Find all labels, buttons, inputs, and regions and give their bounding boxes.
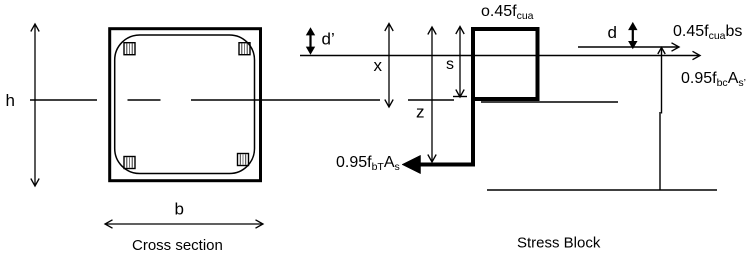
svg-text:s: s (446, 56, 454, 73)
d' bold dimension arrow (306, 27, 315, 55)
svg-text:0.95fbTAs: 0.95fbTAs (336, 154, 400, 173)
compression resultant vertical line with up arrow (658, 48, 665, 191)
inner rounded rect (stirrup link) (115, 35, 255, 174)
x dimension arrow (385, 24, 393, 108)
h dimension arrow (31, 24, 39, 186)
svg-text:Cross section: Cross section (132, 237, 223, 254)
svg-text:d’: d’ (322, 30, 335, 49)
svg-text:0.95fbcAs’: 0.95fbcAs’ (681, 70, 746, 89)
rebar bottom-left (124, 157, 135, 169)
rebar bottom-right (238, 154, 249, 166)
rebar top-right (239, 43, 250, 55)
svg-text:Stress Block: Stress Block (517, 235, 601, 252)
outer square (column cross section) (110, 29, 261, 181)
svg-text:b: b (175, 200, 184, 219)
svg-text:x: x (374, 56, 383, 75)
top axis line with right arrow (300, 51, 700, 59)
centerline dash 1 (128, 99, 161, 101)
svg-text:h: h (6, 91, 15, 110)
tension force arrow 0.95fbTAs (thick, points left) (402, 155, 475, 173)
s dimension arrow (456, 27, 464, 98)
stress block rectangle (thick) (473, 29, 538, 99)
centerline dash 2 (long, runs through section edge) (191, 99, 380, 101)
thick web line below block (471, 97, 475, 165)
upper lever line with right arrow (578, 43, 679, 51)
s arrow end tick (453, 96, 467, 98)
b dimension arrow (105, 220, 263, 228)
centerline tick left of section (30, 99, 97, 101)
rebar top-left (124, 43, 135, 55)
z dimension arrow (428, 27, 436, 162)
thin line right of block bottom (481, 101, 618, 103)
bottom datum line (487, 189, 717, 191)
svg-text:z: z (416, 103, 425, 122)
svg-text:d: d (608, 23, 617, 42)
centerline dash 3 (408, 99, 454, 101)
svg-text:0.45fcuabs: 0.45fcuabs (673, 23, 742, 42)
d bold dimension arrow (628, 22, 637, 49)
